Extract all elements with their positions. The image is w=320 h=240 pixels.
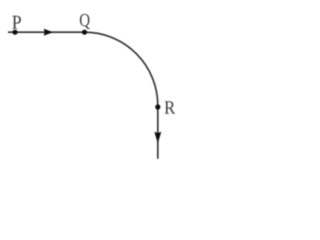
node P <box>12 30 17 35</box>
label Q <box>80 14 90 29</box>
arrow right on PQ segment <box>44 29 53 36</box>
wire: path P->Q horizontal, quarter-arc, vertical down past R <box>8 32 158 159</box>
arrow down on vertical segment <box>154 132 161 143</box>
label R <box>165 101 176 114</box>
label P <box>12 16 21 29</box>
node Q <box>82 30 87 35</box>
node R <box>155 104 160 109</box>
